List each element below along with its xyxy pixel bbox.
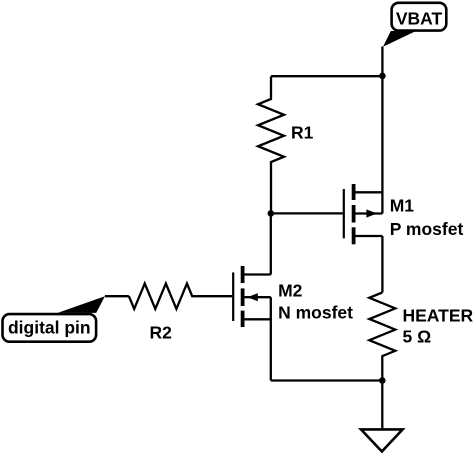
- wire ground stem: [381, 381, 383, 430]
- wire junction to M1 gate: [271, 212, 343, 214]
- svg-text:R1: R1: [291, 123, 314, 143]
- svg-text:R2: R2: [150, 322, 173, 342]
- svg-text:P mosfet: P mosfet: [390, 219, 464, 239]
- wire bottom rail: [271, 379, 383, 381]
- node junction R1 / M1 gate / M2 drain: [268, 210, 275, 217]
- transistor M2 (N mosfet): [233, 266, 271, 327]
- wire top rail: [271, 75, 382, 77]
- svg-text:HEATER: HEATER: [403, 306, 474, 326]
- transistor M1 (P mosfet): [344, 184, 383, 244]
- node junction bottom rail / ground: [379, 377, 386, 384]
- wire VBAT stem to top rail: [381, 47, 383, 77]
- svg-text:M2: M2: [278, 281, 303, 301]
- wire M1 drain down to heater: [381, 236, 383, 293]
- svg-text:N mosfet: N mosfet: [278, 303, 353, 323]
- wire M2 source/body down to bottom rail: [270, 297, 272, 380]
- svg-text:VBAT: VBAT: [396, 8, 443, 28]
- svg-text:digital pin: digital pin: [8, 318, 91, 338]
- resistor R1: [258, 76, 284, 213]
- ground: [361, 429, 403, 451]
- resistor HEATER: [369, 293, 395, 381]
- power flag VBAT: [383, 3, 446, 47]
- svg-text:5 Ω: 5 Ω: [403, 327, 432, 347]
- wire digital pin to R2: [105, 295, 129, 297]
- signal flag digital pin: [3, 296, 105, 341]
- resistor R2: [129, 284, 232, 309]
- svg-text:M1: M1: [390, 196, 415, 216]
- wire M2 drain up to junction: [270, 213, 272, 274]
- node junction at VBAT / top rail: [379, 73, 386, 80]
- wire M1 source/body to VBAT rail: [381, 76, 383, 214]
